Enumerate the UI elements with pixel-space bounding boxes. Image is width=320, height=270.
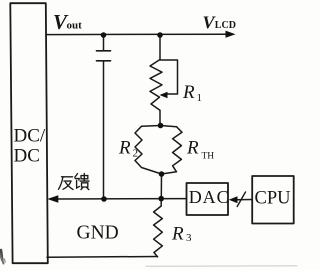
svg-text:TH: TH: [202, 152, 215, 162]
svg-text:DAC: DAC: [189, 187, 230, 207]
svg-text:GND: GND: [77, 223, 119, 244]
svg-text:DC: DC: [14, 146, 40, 167]
svg-text:R: R: [186, 138, 199, 159]
svg-text:R: R: [182, 82, 195, 103]
svg-text:LCD: LCD: [215, 20, 236, 31]
svg-text:R: R: [171, 224, 184, 245]
svg-text:DC/: DC/: [14, 126, 46, 147]
svg-text:R: R: [118, 138, 131, 159]
svg-text:2: 2: [133, 148, 139, 160]
svg-text:CPU: CPU: [255, 188, 291, 208]
svg-text:out: out: [67, 20, 83, 32]
svg-text:3: 3: [186, 232, 192, 244]
svg-text:1: 1: [197, 92, 203, 104]
